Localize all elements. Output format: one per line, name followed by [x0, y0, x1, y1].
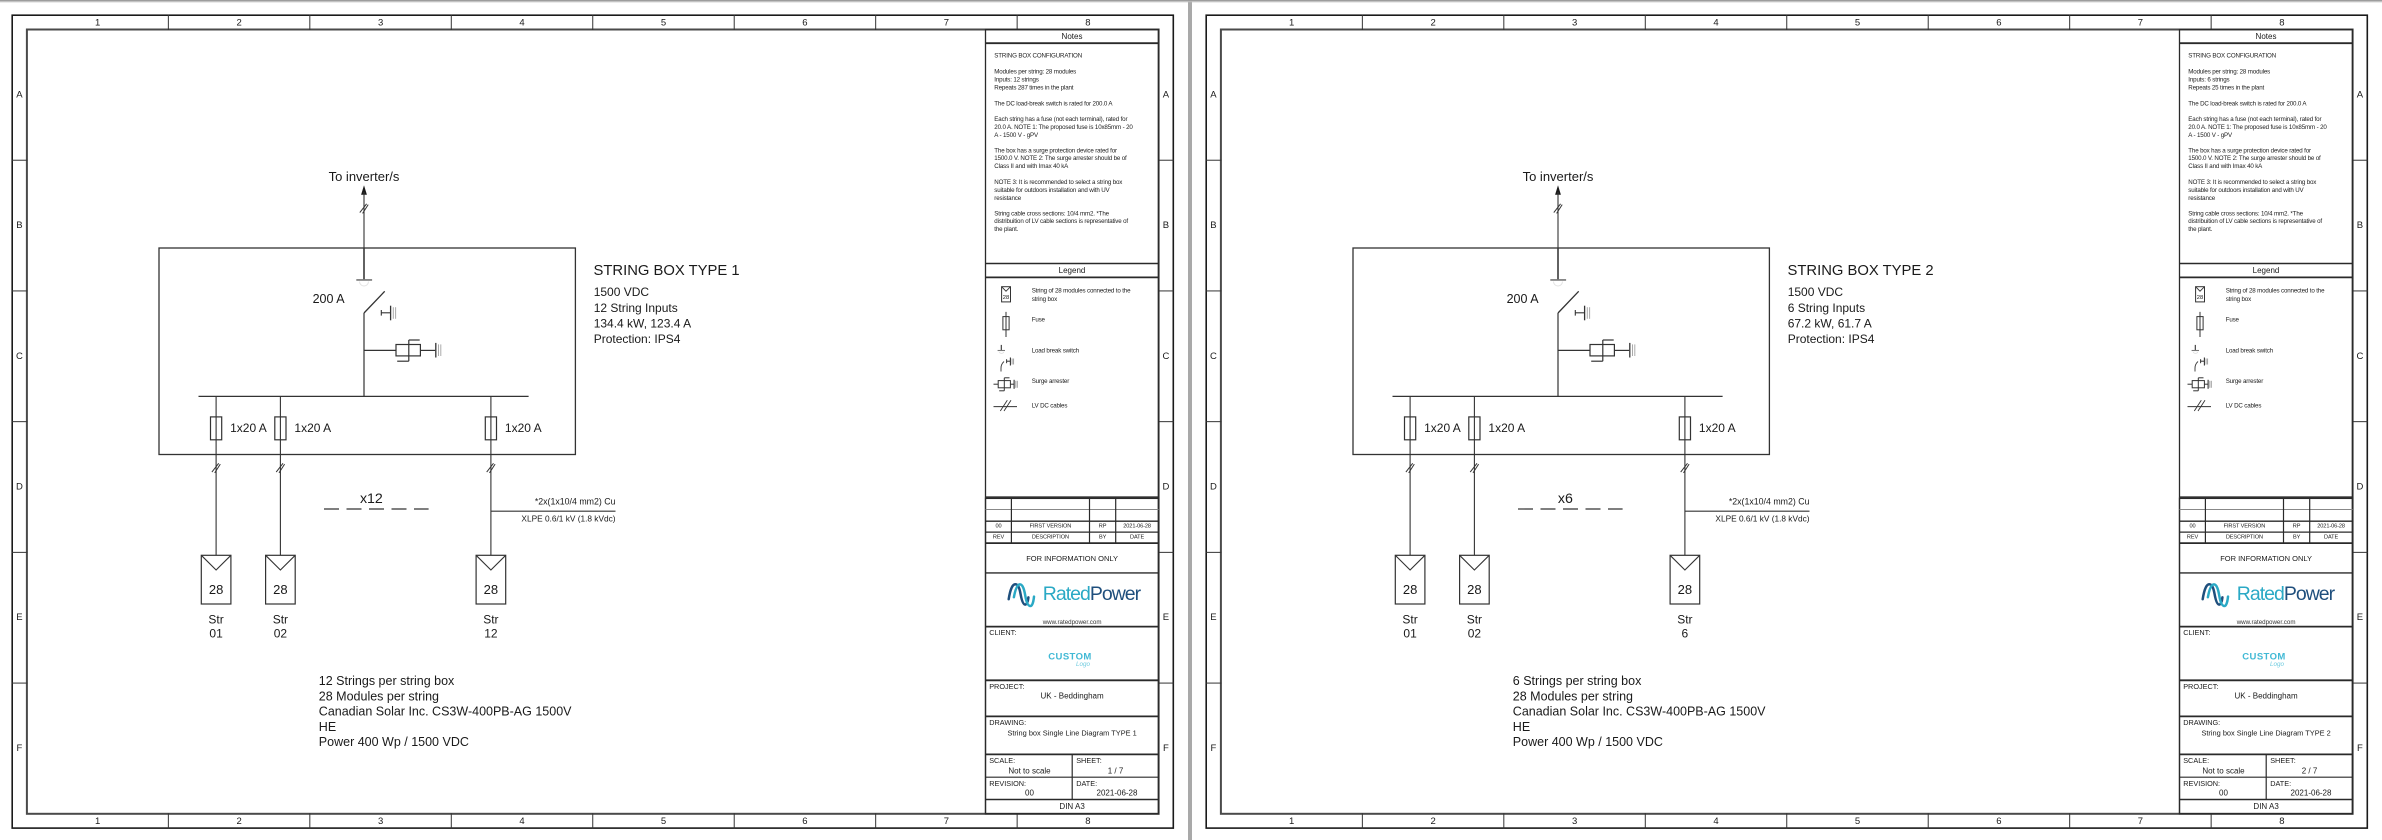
svg-text:1 / 7: 1 / 7 [1108, 767, 1124, 776]
svg-text:D: D [1210, 482, 1217, 493]
svg-text:String of 28 modules connected: String of 28 modules connected to the [2226, 288, 2325, 295]
svg-text:00: 00 [2219, 789, 2228, 798]
svg-text:D: D [16, 482, 23, 493]
legend symbol: LV DC cables [994, 400, 1018, 411]
svg-text:7: 7 [2138, 17, 2143, 28]
value label: cable insulation [1715, 513, 1809, 523]
svg-text:8: 8 [1085, 816, 1090, 827]
page separator strip [0, 0, 2382, 3]
svg-text:B: B [2357, 220, 2363, 231]
svg-text:4: 4 [519, 816, 524, 827]
svg-text:RatedPower: RatedPower [2237, 583, 2336, 605]
svg-text:E: E [1163, 612, 1169, 623]
svg-text:Protection: IPS4: Protection: IPS4 [1788, 332, 1875, 346]
svg-text:REV: REV [2187, 535, 2199, 541]
wire: bus to fuse F2 [279, 396, 281, 417]
svg-text:00: 00 [1025, 789, 1034, 798]
wire: feeder to inverter with arrow [1554, 185, 1562, 248]
svg-text:1x20 A: 1x20 A [1488, 421, 1525, 435]
svg-text:8: 8 [2279, 816, 2284, 827]
svg-text:Fuse: Fuse [2226, 317, 2240, 324]
svg-text:5: 5 [1855, 816, 1860, 827]
svg-text:XLPE 0.6/1 kV (1.8 kVdc): XLPE 0.6/1 kV (1.8 kVdc) [1715, 513, 1809, 523]
svg-text:6 Strings per string box: 6 Strings per string box [1513, 674, 1642, 688]
svg-text:7: 7 [944, 17, 949, 28]
svg-text:DATE: DATE [2324, 535, 2338, 541]
string box enclosure [1353, 248, 1769, 455]
svg-text:NOTE 3: It is recommended to s: NOTE 3: It is recommended to select a st… [2188, 179, 2317, 186]
legend symbol: surge arrester [2188, 378, 2212, 391]
wire: branch to surge arrester [1558, 349, 1590, 351]
svg-text:1x20 A: 1x20 A [505, 421, 542, 435]
svg-text:DIN A3: DIN A3 [1059, 802, 1085, 811]
svg-text:SCALE:: SCALE: [989, 756, 1015, 765]
wire: fuse F2 to string with LV DC cable mark [1470, 440, 1478, 556]
svg-text:200 A: 200 A [1507, 292, 1540, 306]
svg-text:Surge arrester: Surge arrester [1032, 378, 1070, 385]
svg-text:www.ratedpower.com: www.ratedpower.com [1042, 619, 1102, 626]
svg-text:string box: string box [2226, 296, 2252, 303]
svg-text:x6: x6 [1558, 491, 1573, 507]
svg-text:D: D [1162, 482, 1169, 493]
value label: cable cross-section [535, 497, 616, 507]
svg-text:2021-06-28: 2021-06-28 [2291, 789, 2332, 798]
fuse F2 1x20 A [1469, 417, 1480, 440]
svg-text:8: 8 [2279, 17, 2284, 28]
svg-text:Str: Str [208, 613, 223, 627]
svg-text:5: 5 [661, 816, 666, 827]
svg-text:The box has a surge protection: The box has a surge protection device ra… [2188, 147, 2311, 154]
string module Str 6 (28 modules) [1670, 555, 1700, 604]
svg-text:20.0 A. NOTE 1: The proposed f: 20.0 A. NOTE 1: The proposed fuse is 10x… [994, 124, 1133, 131]
value label: 200 A [1507, 292, 1540, 306]
legend symbol: string of modules [2196, 287, 2205, 302]
svg-text:Logo: Logo [1076, 661, 1091, 668]
value label: string box ratings [594, 285, 691, 346]
node: To inverter/s output label [329, 169, 400, 184]
svg-text:F: F [2357, 743, 2363, 754]
svg-text:3: 3 [378, 816, 383, 827]
svg-text:01: 01 [1403, 626, 1417, 640]
svg-text:REVISION:: REVISION: [2183, 779, 2220, 788]
svg-text:00: 00 [2189, 524, 2195, 530]
wire: cable spec pointer [1685, 510, 1810, 512]
svg-text:2: 2 [236, 17, 241, 28]
string module Str 12 (28 modules) [476, 555, 506, 604]
svg-text:STRING BOX TYPE 2: STRING BOX TYPE 2 [1788, 263, 1934, 279]
svg-text:E: E [1210, 612, 1216, 623]
svg-text:Repeats 25 times in the plant: Repeats 25 times in the plant [2188, 84, 2264, 91]
svg-text:STRING BOX CONFIGURATION: STRING BOX CONFIGURATION [994, 53, 1082, 60]
value label: 1x20 A (F3) [1699, 421, 1736, 435]
string module Str 02 (28 modules) [266, 555, 296, 604]
wire: feeder to inverter with arrow [360, 185, 368, 248]
svg-text:UK - Beddingham: UK - Beddingham [2235, 692, 2298, 701]
svg-text:6: 6 [1682, 626, 1689, 640]
svg-text:String box Single Line Diagram: String box Single Line Diagram TYPE 1 [1007, 729, 1136, 738]
svg-text:01: 01 [209, 626, 223, 640]
wire: fuse F1 to string with LV DC cable mark [212, 440, 220, 556]
svg-text:Legend: Legend [1059, 266, 1086, 275]
wire: bus to fuse F1 [215, 396, 217, 417]
wire: fuse F3 to string with LV DC cable mark [487, 440, 495, 556]
svg-text:The DC load-break switch is ra: The DC load-break switch is rated for 20… [994, 100, 1113, 107]
svg-text:Not to scale: Not to scale [2202, 767, 2245, 776]
svg-text:UK - Beddingham: UK - Beddingham [1041, 692, 1104, 701]
svg-text:Str: Str [1402, 613, 1417, 627]
svg-text:String cable cross sections: 1: String cable cross sections: 10/4 mm2. *… [994, 210, 1109, 217]
svg-text:1x20 A: 1x20 A [1699, 421, 1736, 435]
value label: 1x20 A (F2) [1488, 421, 1525, 435]
svg-text:12: 12 [484, 626, 498, 640]
svg-text:28: 28 [1678, 582, 1692, 597]
fuse F1 1x20 A [1405, 417, 1416, 440]
svg-text:HE: HE [319, 720, 336, 734]
svg-text:5: 5 [661, 17, 666, 28]
svg-text:Canadian Solar Inc. CS3W-400PB: Canadian Solar Inc. CS3W-400PB-AG 1500V [1513, 705, 1766, 719]
svg-text:DRAWING:: DRAWING: [989, 718, 1026, 727]
svg-text:C: C [16, 351, 23, 362]
svg-text:Class II and with Imax 40 kA: Class II and with Imax 40 kA [2188, 163, 2263, 170]
wire: branch to surge arrester [364, 349, 396, 351]
svg-text:DATE:: DATE: [2270, 779, 2291, 788]
svg-text:1500 VDC: 1500 VDC [594, 285, 650, 299]
svg-text:CLIENT:: CLIENT: [2183, 628, 2210, 637]
value label: string box title [594, 263, 740, 279]
string module Str 02 (28 modules) [1460, 555, 1490, 604]
value label: 1x20 A (F1) [1424, 421, 1461, 435]
svg-text:1x20 A: 1x20 A [294, 421, 331, 435]
svg-text:2: 2 [1430, 816, 1435, 827]
svg-text:DRAWING:: DRAWING: [2183, 718, 2220, 727]
svg-text:2021-06-28: 2021-06-28 [2317, 524, 2345, 530]
surge arrester [1590, 340, 1635, 361]
svg-text:Surge arrester: Surge arrester [2226, 378, 2264, 385]
value label: plant string summary [319, 674, 572, 749]
svg-text:7: 7 [2138, 816, 2143, 827]
svg-text:1x20 A: 1x20 A [1424, 421, 1461, 435]
svg-text:resistance: resistance [994, 195, 1021, 202]
wire: cable spec pointer [491, 510, 616, 512]
svg-text:28: 28 [1003, 295, 1009, 301]
svg-text:string box: string box [1032, 296, 1058, 303]
node label: Str 02 [273, 613, 288, 641]
svg-text:6: 6 [802, 17, 807, 28]
node label: Str 12 [483, 613, 498, 641]
fuse F1 1x20 A [211, 417, 222, 440]
svg-text:3: 3 [378, 17, 383, 28]
svg-text:SCALE:: SCALE: [2183, 756, 2209, 765]
svg-text:3: 3 [1572, 17, 1577, 28]
svg-text:distribuition of LV cable sect: distribuition of LV cable sections is re… [994, 218, 1128, 225]
node: To inverter/s output label [1523, 169, 1594, 184]
svg-text:To inverter/s: To inverter/s [329, 169, 400, 184]
svg-text:Fuse: Fuse [1032, 317, 1046, 324]
svg-text:5: 5 [1855, 17, 1860, 28]
wire: fuse F1 to string with LV DC cable mark [1406, 440, 1414, 556]
svg-text:Load break switch: Load break switch [2226, 347, 2274, 354]
value label: cable cross-section [1729, 497, 1810, 507]
bus bar [199, 395, 529, 397]
sheet 1: STRING BOX TYPE 1 [0, 0, 1189, 840]
svg-text:REV: REV [993, 535, 1005, 541]
svg-text:STRING BOX TYPE 1: STRING BOX TYPE 1 [594, 263, 740, 279]
string box enclosure [159, 248, 575, 455]
svg-text:B: B [1163, 220, 1169, 231]
svg-text:6: 6 [1996, 17, 2001, 28]
svg-text:DESCRIPTION: DESCRIPTION [1032, 535, 1069, 541]
svg-text:Canadian Solar Inc. CS3W-400PB: Canadian Solar Inc. CS3W-400PB-AG 1500V [319, 705, 572, 719]
fuse F3 1x20 A [1679, 417, 1690, 440]
legend symbol: load break switch [998, 345, 1014, 372]
svg-text:134.4 kW, 123.4 A: 134.4 kW, 123.4 A [594, 316, 691, 330]
svg-text:Class II and with Imax 40 kA: Class II and with Imax 40 kA [994, 163, 1069, 170]
svg-text:28 Modules per string: 28 Modules per string [1513, 689, 1633, 703]
svg-text:suitable for outdoors installa: suitable for outdoors installation and w… [994, 187, 1110, 194]
svg-text:Protection: IPS4: Protection: IPS4 [594, 332, 681, 346]
load break switch 200 A [1550, 248, 1589, 320]
svg-text:A: A [1210, 89, 1217, 100]
svg-text:1: 1 [95, 17, 100, 28]
svg-text:DATE: DATE [1130, 535, 1144, 541]
svg-text:Modules per string: 28 modules: Modules per string: 28 modules [2188, 69, 2270, 76]
svg-text:1x20 A: 1x20 A [230, 421, 267, 435]
svg-text:4: 4 [519, 17, 524, 28]
svg-text:6: 6 [1996, 816, 2001, 827]
svg-text:Str: Str [1467, 613, 1482, 627]
junction: string repeat dashed line [1518, 508, 1623, 510]
surge arrester [396, 340, 441, 361]
svg-text:28: 28 [484, 582, 498, 597]
svg-text:Notes: Notes [2256, 32, 2277, 41]
svg-text:XLPE 0.6/1 kV (1.8 kVdc): XLPE 0.6/1 kV (1.8 kVdc) [521, 513, 615, 523]
value label: cable insulation [521, 513, 615, 523]
svg-text:*2x(1x10/4 mm2) Cu: *2x(1x10/4 mm2) Cu [1729, 497, 1810, 507]
svg-text:2: 2 [1430, 17, 1435, 28]
svg-text:A - 1500 V - gPV: A - 1500 V - gPV [994, 132, 1039, 139]
svg-text:PROJECT:: PROJECT: [989, 682, 1024, 691]
svg-text:the plant.: the plant. [994, 226, 1018, 233]
svg-text:1500 VDC: 1500 VDC [1788, 285, 1844, 299]
svg-text:SHEET:: SHEET: [2270, 756, 2296, 765]
svg-text:28: 28 [2197, 295, 2203, 301]
value label: repeat count [1558, 491, 1573, 507]
svg-text:Notes: Notes [1062, 32, 1083, 41]
svg-text:6 String Inputs: 6 String Inputs [1788, 301, 1865, 315]
value label: string box ratings [1788, 285, 1875, 346]
svg-text:1: 1 [95, 816, 100, 827]
svg-text:BY: BY [1099, 535, 1107, 541]
svg-text:F: F [1163, 743, 1169, 754]
svg-text:String box Single Line Diagram: String box Single Line Diagram TYPE 2 [2201, 729, 2330, 738]
svg-text:RatedPower: RatedPower [1043, 583, 1142, 605]
svg-text:To inverter/s: To inverter/s [1523, 169, 1594, 184]
svg-text:D: D [2356, 482, 2363, 493]
svg-text:SHEET:: SHEET: [1076, 756, 1102, 765]
legend symbol: fuse [1003, 312, 1009, 337]
svg-text:The box has a surge protection: The box has a surge protection device ra… [994, 147, 1117, 154]
svg-text:02: 02 [274, 626, 288, 640]
node label: Str 02 [1467, 613, 1482, 641]
svg-text:02: 02 [1468, 626, 1482, 640]
svg-text:12 String Inputs: 12 String Inputs [594, 301, 678, 315]
svg-text:*2x(1x10/4 mm2) Cu: *2x(1x10/4 mm2) Cu [535, 497, 616, 507]
svg-text:6: 6 [802, 816, 807, 827]
svg-text:2021-06-28: 2021-06-28 [1123, 524, 1151, 530]
svg-text:DESCRIPTION: DESCRIPTION [2226, 535, 2263, 541]
sheet 2: STRING BOX TYPE 2 [1194, 0, 2382, 840]
svg-text:DATE:: DATE: [1076, 779, 1097, 788]
legend symbol: string of modules [1002, 287, 1011, 302]
svg-text:A: A [2357, 89, 2364, 100]
wire: bus to fuse F1 [1409, 396, 1411, 417]
value label: 1x20 A (F1) [230, 421, 267, 435]
svg-text:F: F [16, 743, 22, 754]
fuse F3 1x20 A [485, 417, 496, 440]
svg-text:A: A [16, 89, 23, 100]
svg-text:3: 3 [1572, 816, 1577, 827]
svg-text:28: 28 [209, 582, 223, 597]
svg-text:C: C [1162, 351, 1169, 362]
svg-text:Inputs: 6 strings: Inputs: 6 strings [2188, 76, 2229, 83]
svg-text:LV DC cables: LV DC cables [1032, 403, 1068, 410]
wire: bus to fuse F3 [1684, 396, 1686, 417]
node label: Str 01 [208, 613, 223, 641]
svg-text:FOR INFORMATION ONLY: FOR INFORMATION ONLY [1026, 554, 1118, 563]
value label: 200 A [313, 292, 346, 306]
value label: repeat count [360, 491, 383, 507]
wire: bus to fuse F2 [1473, 396, 1475, 417]
svg-text:Each string has a fuse (not ea: Each string has a fuse (not each termina… [994, 116, 1127, 123]
svg-text:resistance: resistance [2188, 195, 2215, 202]
svg-text:C: C [1210, 351, 1217, 362]
svg-text:B: B [1210, 220, 1216, 231]
value label: 1x20 A (F2) [294, 421, 331, 435]
svg-text:7: 7 [944, 816, 949, 827]
svg-text:67.2 kW, 61.7 A: 67.2 kW, 61.7 A [1788, 316, 1872, 330]
svg-text:Modules per string: 28 modules: Modules per string: 28 modules [994, 69, 1076, 76]
svg-text:20.0 A. NOTE 1: The proposed f: 20.0 A. NOTE 1: The proposed fuse is 10x… [2188, 124, 2327, 131]
node label: Str 6 [1677, 613, 1692, 641]
svg-text:1: 1 [1289, 17, 1294, 28]
svg-text:2021-06-28: 2021-06-28 [1097, 789, 1138, 798]
svg-text:Not to scale: Not to scale [1008, 767, 1051, 776]
svg-text:B: B [16, 220, 22, 231]
svg-text:FOR INFORMATION ONLY: FOR INFORMATION ONLY [2220, 554, 2312, 563]
svg-text:CLIENT:: CLIENT: [989, 628, 1016, 637]
svg-text:A - 1500 V - gPV: A - 1500 V - gPV [2188, 132, 2233, 139]
svg-text:Power 400 Wp / 1500 VDC: Power 400 Wp / 1500 VDC [1513, 735, 1663, 749]
svg-text:Power 400 Wp / 1500 VDC: Power 400 Wp / 1500 VDC [319, 735, 469, 749]
svg-text:Legend: Legend [2253, 266, 2280, 275]
svg-text:1500.0 V. NOTE 2: The surge ar: 1500.0 V. NOTE 2: The surge arrester sho… [2188, 155, 2321, 162]
svg-text:suitable for outdoors installa: suitable for outdoors installation and w… [2188, 187, 2304, 194]
svg-text:The DC load-break switch is ra: The DC load-break switch is rated for 20… [2188, 100, 2307, 107]
svg-text:1: 1 [1289, 816, 1294, 827]
svg-text:FIRST VERSION: FIRST VERSION [2224, 524, 2266, 530]
svg-text:A: A [1163, 89, 1170, 100]
svg-text:String cable cross sections: 1: String cable cross sections: 10/4 mm2. *… [2188, 210, 2303, 217]
svg-text:NOTE 3: It is recommended to s: NOTE 3: It is recommended to select a st… [994, 179, 1123, 186]
svg-text:C: C [2356, 351, 2363, 362]
svg-text:4: 4 [1713, 816, 1718, 827]
svg-text:200 A: 200 A [313, 292, 346, 306]
svg-text:BY: BY [2293, 535, 2301, 541]
svg-text:28 Modules per string: 28 Modules per string [319, 689, 439, 703]
svg-text:RP: RP [2293, 524, 2301, 530]
legend symbol: fuse [2197, 312, 2203, 337]
svg-text:String of 28 modules connected: String of 28 modules connected to the [1032, 288, 1131, 295]
legend symbol: surge arrester [994, 378, 1018, 391]
wire: switch to bus bar [363, 313, 365, 396]
svg-text:PROJECT:: PROJECT: [2183, 682, 2218, 691]
legend symbol: LV DC cables [2188, 400, 2212, 411]
svg-text:4: 4 [1713, 17, 1718, 28]
svg-text:8: 8 [1085, 17, 1090, 28]
svg-text:28: 28 [1403, 582, 1417, 597]
svg-text:Logo: Logo [2270, 661, 2285, 668]
svg-text:2 / 7: 2 / 7 [2302, 767, 2318, 776]
svg-text:LV DC cables: LV DC cables [2226, 403, 2262, 410]
svg-text:28: 28 [1467, 582, 1481, 597]
svg-text:00: 00 [995, 524, 1001, 530]
svg-text:28: 28 [273, 582, 287, 597]
value label: plant string summary [1513, 674, 1766, 749]
svg-text:Load break switch: Load break switch [1032, 347, 1080, 354]
load break switch 200 A [356, 248, 395, 320]
svg-text:E: E [2357, 612, 2363, 623]
node label: Str 01 [1402, 613, 1417, 641]
string module Str 01 (28 modules) [1395, 555, 1425, 604]
svg-text:distribuition of LV cable sect: distribuition of LV cable sections is re… [2188, 218, 2322, 225]
svg-text:Str: Str [483, 613, 498, 627]
value label: string box title [1788, 263, 1934, 279]
svg-text:RP: RP [1099, 524, 1107, 530]
bus bar [1393, 395, 1723, 397]
value label: 1x20 A (F3) [505, 421, 542, 435]
junction: string repeat dashed line [324, 508, 429, 510]
svg-text:REVISION:: REVISION: [989, 779, 1026, 788]
string module Str 01 (28 modules) [201, 555, 231, 604]
svg-text:Inputs: 12 strings: Inputs: 12 strings [994, 76, 1038, 83]
svg-text:the plant.: the plant. [2188, 226, 2212, 233]
legend symbol: load break switch [2192, 345, 2208, 372]
svg-text:F: F [1210, 743, 1216, 754]
svg-text:E: E [16, 612, 22, 623]
svg-text:12 Strings per string box: 12 Strings per string box [319, 674, 455, 688]
wire: bus to fuse F3 [490, 396, 492, 417]
svg-text:Str: Str [273, 613, 288, 627]
svg-text:HE: HE [1513, 720, 1530, 734]
wire: fuse F3 to string with LV DC cable mark [1681, 440, 1689, 556]
svg-text:FIRST VERSION: FIRST VERSION [1030, 524, 1072, 530]
wire: fuse F2 to string with LV DC cable mark [276, 440, 284, 556]
svg-text:Each string has a fuse (not ea: Each string has a fuse (not each termina… [2188, 116, 2321, 123]
wire: switch to bus bar [1557, 313, 1559, 396]
svg-text:1500.0 V. NOTE 2: The surge ar: 1500.0 V. NOTE 2: The surge arrester sho… [994, 155, 1127, 162]
svg-text:DIN A3: DIN A3 [2253, 802, 2279, 811]
svg-text:Repeats 287 times in the plant: Repeats 287 times in the plant [994, 84, 1074, 91]
fuse F2 1x20 A [275, 417, 286, 440]
svg-text:STRING BOX CONFIGURATION: STRING BOX CONFIGURATION [2188, 53, 2276, 60]
svg-text:Str: Str [1677, 613, 1692, 627]
svg-text:www.ratedpower.com: www.ratedpower.com [2236, 619, 2296, 626]
svg-text:x12: x12 [360, 491, 383, 507]
svg-text:2: 2 [236, 816, 241, 827]
